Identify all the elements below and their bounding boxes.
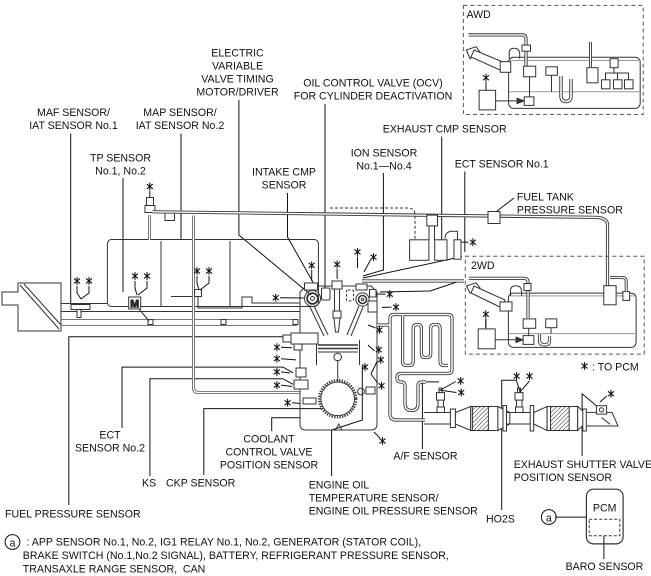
svg-text:: APP SENSOR No.1, No.2, IG1 R: : APP SENSOR No.1, No.2, IG1 RELAY No.1,… bbox=[27, 536, 422, 548]
svg-text:No.1—No.4: No.1—No.4 bbox=[356, 160, 411, 172]
svg-text:CONTROL VALVE: CONTROL VALVE bbox=[226, 446, 313, 458]
svg-text:TEMPERATURE SENSOR/: TEMPERATURE SENSOR/ bbox=[309, 493, 439, 505]
svg-text:OIL CONTROL VALVE (OCV): OIL CONTROL VALVE (OCV) bbox=[303, 78, 443, 90]
svg-text:MOTOR/DRIVER: MOTOR/DRIVER bbox=[196, 87, 279, 99]
svg-text:PRESSURE SENSOR: PRESSURE SENSOR bbox=[517, 205, 623, 217]
svg-text:FUEL PRESSURE SENSOR: FUEL PRESSURE SENSOR bbox=[5, 509, 141, 521]
svg-text:ECT: ECT bbox=[99, 430, 121, 442]
svg-text:EXHAUST SHUTTER VALVE: EXHAUST SHUTTER VALVE bbox=[514, 459, 651, 471]
svg-text:IAT SENSOR No.1: IAT SENSOR No.1 bbox=[29, 120, 118, 132]
svg-text:MAP SENSOR/: MAP SENSOR/ bbox=[143, 107, 216, 119]
svg-text:POSITION SENSOR: POSITION SENSOR bbox=[514, 472, 613, 484]
svg-text:No.1, No.2: No.1, No.2 bbox=[95, 166, 146, 178]
svg-text:TRANSAXLE RANGE SENSOR, CAN: TRANSAXLE RANGE SENSOR, CAN bbox=[23, 563, 206, 575]
svg-text:SENSOR: SENSOR bbox=[262, 180, 307, 192]
svg-text:a: a bbox=[546, 513, 552, 525]
svg-text:PCM: PCM bbox=[593, 503, 617, 515]
svg-text:TP SENSOR: TP SENSOR bbox=[90, 153, 151, 165]
svg-text:KS: KS bbox=[142, 478, 156, 490]
svg-text:VARIABLE: VARIABLE bbox=[212, 61, 263, 73]
svg-text:FUEL TANK: FUEL TANK bbox=[517, 192, 574, 204]
svg-text:BRAKE SWITCH (No.1,No.2 SIGNAL: BRAKE SWITCH (No.1,No.2 SIGNAL), BATTERY… bbox=[23, 550, 449, 562]
svg-text:ECT SENSOR No.1: ECT SENSOR No.1 bbox=[455, 159, 549, 171]
svg-text:ENGINE OIL: ENGINE OIL bbox=[309, 480, 370, 492]
svg-text:AWD: AWD bbox=[467, 9, 492, 21]
svg-text:INTAKE CMP: INTAKE CMP bbox=[252, 167, 316, 179]
svg-text:ENGINE OIL PRESSURE SENSOR: ENGINE OIL PRESSURE SENSOR bbox=[309, 506, 478, 518]
svg-text:POSITION SENSOR: POSITION SENSOR bbox=[220, 459, 319, 471]
svg-text:A/F SENSOR: A/F SENSOR bbox=[393, 450, 458, 462]
svg-text:HO2S: HO2S bbox=[486, 514, 515, 526]
svg-text:IAT SENSOR No.2: IAT SENSOR No.2 bbox=[136, 120, 225, 132]
svg-text:ELECTRIC: ELECTRIC bbox=[211, 48, 264, 60]
svg-text:SENSOR No.2: SENSOR No.2 bbox=[75, 443, 145, 455]
svg-text:EXHAUST CMP SENSOR: EXHAUST CMP SENSOR bbox=[383, 123, 507, 135]
svg-text:a: a bbox=[10, 538, 16, 550]
svg-text:FOR CYLINDER DEACTIVATION: FOR CYLINDER DEACTIVATION bbox=[294, 91, 453, 103]
svg-text:: TO PCM: : TO PCM bbox=[592, 362, 639, 374]
svg-text:ION SENSOR: ION SENSOR bbox=[351, 147, 418, 159]
svg-text:MAF SENSOR/: MAF SENSOR/ bbox=[37, 107, 110, 119]
svg-text:COOLANT: COOLANT bbox=[243, 433, 295, 445]
svg-text:2WD: 2WD bbox=[471, 260, 495, 272]
svg-text:M: M bbox=[130, 299, 139, 311]
svg-text:BARO SENSOR: BARO SENSOR bbox=[566, 561, 644, 573]
svg-text:VALVE TIMING: VALVE TIMING bbox=[201, 74, 273, 86]
svg-text:CKP SENSOR: CKP SENSOR bbox=[166, 478, 236, 490]
